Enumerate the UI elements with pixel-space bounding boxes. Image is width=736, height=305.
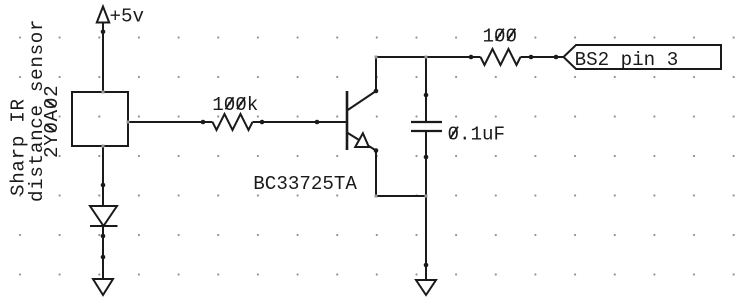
- sensor box U1: [72, 92, 128, 146]
- wire: capacitor to ground: [425, 131, 427, 280]
- wire: top rail to R2: [376, 56, 481, 58]
- svg-text:BC33725TA: BC33725TA: [253, 173, 357, 195]
- wire: box to resistor R1: [128, 121, 213, 123]
- resistor R2 100: [481, 25, 521, 65]
- svg-text:BS2 pin 3: BS2 pin 3: [575, 49, 679, 71]
- port flag BS2 pin 3: [564, 45, 722, 71]
- svg-text:+5v: +5v: [110, 6, 145, 28]
- node: wire corner squares: [102, 56, 428, 198]
- node: right ground pin dot: [424, 263, 429, 268]
- wire: R1 to transistor base: [253, 121, 348, 123]
- resistor R1 100k: [212, 94, 258, 130]
- wire: +5v to sensor box: [102, 23, 104, 93]
- wire: top rail to capacitor: [425, 57, 427, 121]
- wire: collector up to top rail: [375, 57, 377, 91]
- node: cap bottom pin dot: [424, 155, 429, 160]
- node: R1 right pin dot: [260, 120, 265, 125]
- node: R2 left pin dot: [469, 55, 474, 60]
- node: collector pin dot: [374, 89, 379, 94]
- wire: box to diode: [102, 146, 104, 206]
- capacitor C1 0.1uF: [411, 122, 505, 145]
- node: cap top pin dot: [424, 93, 429, 98]
- node: R2 right pin dot: [529, 55, 534, 60]
- wire: emitter to ground rail: [376, 151, 426, 197]
- node: R1 left pin dot: [201, 120, 206, 125]
- power +5v: [97, 6, 144, 28]
- ground (left): [93, 279, 113, 295]
- transistor Q1 BC33725TA: [253, 91, 376, 195]
- wire: R2 to flag: [521, 56, 564, 58]
- svg-text:100k: 100k: [212, 94, 258, 116]
- node: power pin dot: [101, 30, 106, 35]
- node: emitter pin dot: [374, 148, 379, 153]
- node: diode top pin dot: [101, 183, 106, 188]
- node: left ground pin dot: [101, 255, 106, 260]
- node: flag pin dot: [554, 55, 559, 60]
- svg-text:2Y0A02: 2Y0A02: [41, 85, 63, 158]
- diode D1: [90, 206, 118, 226]
- label: Sharp IR distance sensor 2Y0A02: [7, 19, 63, 202]
- ground (right): [416, 280, 436, 295]
- svg-text:0.1uF: 0.1uF: [448, 123, 506, 145]
- svg-text:100: 100: [483, 25, 518, 47]
- node: base pin dot: [315, 120, 320, 125]
- node: diode bottom pin dot: [101, 234, 106, 239]
- wire: diode to ground: [102, 226, 104, 279]
